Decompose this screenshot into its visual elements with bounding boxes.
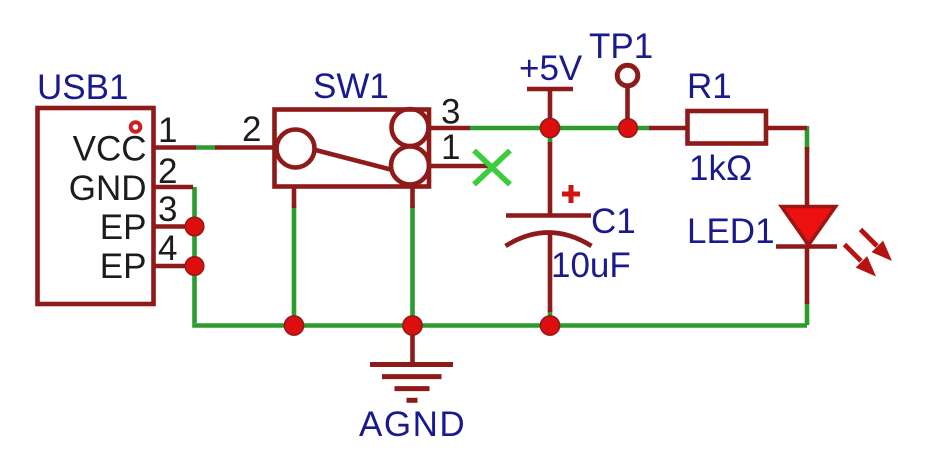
svg-text:3: 3 bbox=[441, 93, 460, 132]
svg-text:1: 1 bbox=[158, 111, 177, 150]
svg-text:R1: R1 bbox=[687, 67, 732, 106]
svg-text:10uF: 10uF bbox=[551, 246, 631, 285]
svg-text:EP: EP bbox=[100, 208, 147, 247]
svg-text:SW1: SW1 bbox=[313, 67, 389, 106]
svg-text:VCC: VCC bbox=[73, 130, 147, 169]
svg-text:C1: C1 bbox=[591, 202, 636, 241]
svg-text:3: 3 bbox=[158, 190, 177, 229]
svg-text:LED1: LED1 bbox=[687, 212, 775, 251]
svg-text:+5V: +5V bbox=[519, 49, 583, 88]
svg-text:EP: EP bbox=[100, 247, 147, 286]
svg-text:1kΩ: 1kΩ bbox=[689, 149, 752, 188]
svg-text:USB1: USB1 bbox=[37, 68, 128, 107]
svg-text:4: 4 bbox=[158, 229, 177, 268]
svg-text:GND: GND bbox=[69, 169, 147, 208]
svg-text:2: 2 bbox=[242, 110, 261, 149]
svg-text:2: 2 bbox=[158, 152, 177, 191]
svg-text:1: 1 bbox=[441, 128, 460, 167]
svg-text:AGND: AGND bbox=[359, 405, 466, 444]
svg-text:TP1: TP1 bbox=[589, 27, 653, 66]
